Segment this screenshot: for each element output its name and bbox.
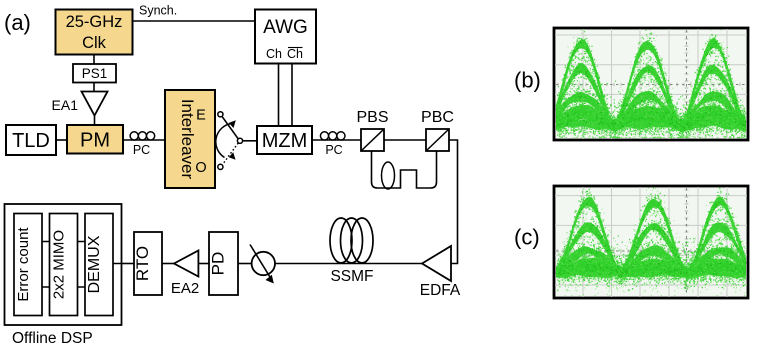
wire PM to Interleaver <box>123 139 165 141</box>
svg-text:(b): (b) <box>514 68 541 93</box>
svg-text:DEMUX: DEMUX <box>86 235 103 293</box>
svg-text:EA1: EA1 <box>52 97 79 113</box>
amplifier EA1 <box>52 92 108 116</box>
AWG <box>255 10 316 64</box>
wire EA1 to PM <box>94 116 96 126</box>
switch rotation arc arrow <box>216 120 236 160</box>
svg-text:PM: PM <box>80 130 110 152</box>
DSP stage DEMUX <box>85 214 113 316</box>
wire AWG Ch to MZM <box>278 64 280 127</box>
svg-text:PS1: PS1 <box>82 66 108 81</box>
svg-text:Ch: Ch <box>287 47 303 61</box>
polarization controller PC (first) <box>130 132 155 157</box>
oscilloscope RTO <box>133 232 162 295</box>
wire PD to VOA <box>238 263 252 265</box>
fiber spool SSMF <box>330 218 374 285</box>
svg-text:O: O <box>195 160 206 176</box>
svg-text:E: E <box>196 108 206 124</box>
svg-text:25-GHz: 25-GHz <box>66 13 123 31</box>
svg-text:PC: PC <box>325 143 342 157</box>
svg-text:Ch: Ch <box>266 47 282 61</box>
phase modulator PM <box>67 125 123 154</box>
svg-text:AWG: AWG <box>263 17 308 38</box>
switch port E terminal <box>218 112 223 117</box>
fiber loop on delay path <box>382 162 395 189</box>
svg-text:Interleaver: Interleaver <box>178 99 197 180</box>
wire PBC to EDFA (right vertical) <box>449 140 458 264</box>
svg-text:EDFA: EDFA <box>420 282 461 299</box>
wire EDFA to VOA (through SSMF) <box>275 263 422 265</box>
svg-text:Error count: Error count <box>15 227 32 302</box>
fiber delay path PBS to PBC (lower arm) <box>372 151 437 188</box>
phase shifter PS1 <box>73 64 116 83</box>
laser TLD <box>6 125 56 155</box>
Interleaver <box>165 90 215 188</box>
attenuator VOA <box>250 245 275 284</box>
switch common terminal <box>237 138 242 143</box>
polarization beam combiner PBC <box>421 109 454 151</box>
switch arm E to common <box>222 117 238 139</box>
eye diagram (c) <box>554 186 748 298</box>
svg-text:PD: PD <box>209 252 228 276</box>
svg-text:Clk: Clk <box>82 34 107 52</box>
wire switch common to MZM <box>243 140 257 142</box>
polarization beam splitter PBS <box>356 109 388 151</box>
wire Error count to 2x2 MIMO (upper) <box>42 241 50 243</box>
eye diagram (b) <box>554 28 748 140</box>
svg-text:(a): (a) <box>4 10 31 35</box>
svg-text:MZM: MZM <box>262 130 308 152</box>
svg-text:2x2 MIMO: 2x2 MIMO <box>51 230 68 299</box>
svg-text:PC: PC <box>133 143 150 157</box>
svg-text:PBS: PBS <box>356 109 388 126</box>
switch dotted arm common to O <box>223 143 239 164</box>
wire PBS to PBC <box>384 139 426 141</box>
modulator MZM <box>257 126 312 154</box>
wire DSP to RTO <box>122 263 135 265</box>
wire Clk to PS1 <box>93 55 95 65</box>
polarization controller PC (second) <box>320 132 345 157</box>
svg-text:Offline DSP: Offline DSP <box>12 330 93 347</box>
wire Error count to 2x2 MIMO (lower) <box>42 286 50 288</box>
svg-text:Synch.: Synch. <box>139 4 177 18</box>
DSP stage Error count <box>14 214 42 316</box>
svg-text:SSMF: SSMF <box>330 268 373 285</box>
wire AWG Chbar to MZM <box>291 64 293 127</box>
svg-text:EA2: EA2 <box>171 280 199 297</box>
wire DEMUX to DSP box edge <box>113 263 122 265</box>
wire EA2 to PD <box>198 263 209 265</box>
switch port O terminal <box>218 164 223 169</box>
DSP stage 2x2 MIMO <box>50 214 78 316</box>
wire PS1 to EA1 <box>93 83 95 92</box>
amplifier EA2 <box>171 251 199 298</box>
wire TLD to PM <box>56 139 67 141</box>
amplifier EDFA <box>420 246 461 299</box>
svg-text:RTO: RTO <box>133 246 152 281</box>
wire RTO to EA2 <box>162 263 174 265</box>
svg-text:TLD: TLD <box>12 130 50 152</box>
svg-text:PBC: PBC <box>421 109 454 126</box>
wire 2x2 MIMO to DEMUX (upper) <box>78 241 86 243</box>
photodiode PD <box>209 232 239 295</box>
wire Clk to AWG (Synch.) <box>133 20 256 22</box>
clock source 25-GHz Clk <box>56 10 133 55</box>
wire 2x2 MIMO to DEMUX (lower) <box>78 286 86 288</box>
Offline DSP block <box>5 204 122 347</box>
svg-text:(c): (c) <box>514 225 540 250</box>
wire MZM to PBS <box>312 139 361 141</box>
